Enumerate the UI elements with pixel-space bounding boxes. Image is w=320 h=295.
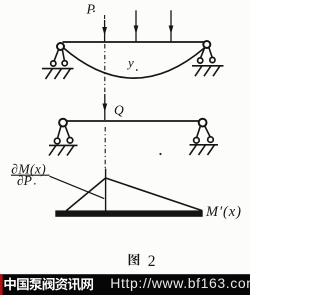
support B ground hatching — [195, 66, 220, 76]
svg-text:∂P: ∂P — [17, 173, 32, 188]
support D ground hatching — [190, 145, 215, 155]
load arrow Q — [102, 94, 107, 120]
stray ink speck — [159, 153, 161, 155]
support A ground hatching — [46, 69, 71, 79]
base bar beam 3 — [55, 210, 202, 216]
support B pin circle — [203, 41, 210, 48]
load arrow P — [102, 20, 107, 42]
support D rollers — [194, 137, 214, 143]
caption character tu (figure) — [129, 253, 140, 265]
load arrow 2 — [134, 10, 139, 41]
svg-text:Q: Q — [114, 103, 124, 118]
fraction bar — [11, 174, 50, 176]
svg-text:y: y — [126, 55, 134, 70]
support C pin circle — [59, 119, 67, 127]
influence line vertical ordinate — [105, 169, 107, 211]
banner site name characters — [4, 278, 93, 291]
influence line left side — [66, 178, 105, 211]
banner background — [0, 274, 250, 295]
influence line right side — [106, 178, 203, 211]
svg-text:Http://www.bf163.com: Http://www.bf163.com — [110, 275, 250, 291]
deflection curve y — [63, 48, 204, 79]
centerline between figures — [104, 44, 106, 95]
support A rollers — [51, 61, 68, 66]
support C ground line — [49, 144, 78, 146]
support A ground line — [42, 68, 74, 70]
support A linkage legs — [54, 49, 64, 61]
svg-text:M′(x): M′(x) — [205, 204, 242, 220]
svg-text:P: P — [86, 2, 96, 17]
leader line — [50, 176, 105, 198]
support C rollers — [54, 138, 72, 144]
support B rollers — [198, 57, 215, 63]
banner red stripe — [0, 274, 3, 295]
centerline lower segment — [104, 127, 106, 169]
support D ground line — [190, 144, 219, 146]
support B ground line — [192, 65, 224, 67]
support D linkage legs — [197, 126, 211, 138]
beam 1 — [63, 41, 206, 43]
load arrow 3 — [169, 10, 174, 41]
centerline top segment — [104, 15, 106, 22]
beam 2 — [67, 120, 199, 122]
support A pin circle — [57, 43, 64, 50]
svg-text:2: 2 — [148, 253, 156, 270]
support C linkage legs — [58, 126, 70, 138]
support D pin circle — [199, 119, 207, 127]
support B linkage legs — [200, 47, 212, 58]
support C ground hatching — [49, 145, 74, 155]
